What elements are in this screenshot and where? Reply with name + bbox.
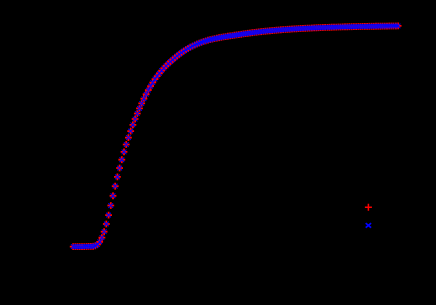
series 1: red + markers (sigmoid data curve) bbox=[70, 23, 402, 251]
legend marker: red + bbox=[365, 204, 372, 211]
legend marker: blue x bbox=[366, 223, 371, 228]
series 2: blue x markers (sigmoid fit curve, drawn on top) bbox=[71, 24, 401, 249]
